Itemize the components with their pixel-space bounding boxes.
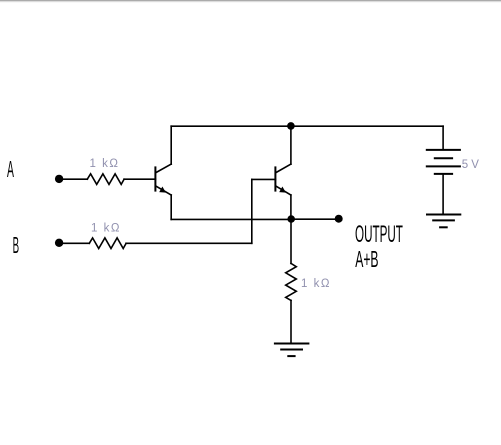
label A+B xyxy=(355,246,378,272)
svg-text:B: B xyxy=(13,232,19,258)
node A label xyxy=(7,157,14,183)
battery BT1 5V xyxy=(427,150,460,174)
wire Q1 emitter down xyxy=(170,195,172,219)
svg-text:5 V: 5 V xyxy=(462,159,480,171)
value label 1 kOhm (R2) xyxy=(91,223,121,235)
node B label xyxy=(13,232,19,258)
terminal dot OUTPUT xyxy=(335,215,343,223)
wire Q2 emitter down xyxy=(290,195,292,219)
svg-text:1 kΩ: 1 kΩ xyxy=(91,223,121,235)
resistor R1 xyxy=(87,174,124,185)
resistor R2 xyxy=(89,238,126,249)
resistor R3 xyxy=(286,263,297,300)
label OUTPUT xyxy=(355,221,403,248)
wire B vertical riser xyxy=(251,179,253,243)
node output junction xyxy=(287,215,295,223)
ground G1 xyxy=(275,344,309,357)
wire top rail xyxy=(171,125,443,127)
node junction top rail xyxy=(287,122,295,130)
ground G2 xyxy=(427,215,460,228)
wire Q2 collector up xyxy=(290,126,292,164)
wire rail to battery xyxy=(442,126,444,149)
svg-text:OUTPUT: OUTPUT xyxy=(355,221,403,248)
svg-text:1 kΩ: 1 kΩ xyxy=(301,278,331,290)
svg-text:A: A xyxy=(7,157,14,183)
wire emitter rail xyxy=(171,218,291,220)
value label 1 kOhm (R3) xyxy=(301,278,331,290)
transistor Q1 xyxy=(155,164,171,195)
transistor Q2 xyxy=(275,164,291,195)
terminal dot B xyxy=(55,239,63,247)
wire Q1 collector up xyxy=(170,126,172,164)
wire node to R3 xyxy=(290,219,292,263)
value label 5 V xyxy=(462,159,480,171)
wire A terminal to R1 xyxy=(63,178,87,180)
wire to Q2 base xyxy=(252,178,276,180)
wire B terminal to R2 xyxy=(63,242,89,244)
wire R3 to ground xyxy=(290,300,292,343)
svg-text:1 kΩ: 1 kΩ xyxy=(90,158,120,170)
wire R1 to Q1 base xyxy=(124,178,155,180)
top window border xyxy=(0,0,501,1)
wire battery to ground xyxy=(442,175,444,215)
svg-text:A+B: A+B xyxy=(355,246,378,272)
terminal dot A xyxy=(55,175,63,183)
wire output xyxy=(291,218,339,220)
value label 1 kOhm (R1) xyxy=(90,158,120,170)
wire R2 to corner xyxy=(126,242,252,244)
